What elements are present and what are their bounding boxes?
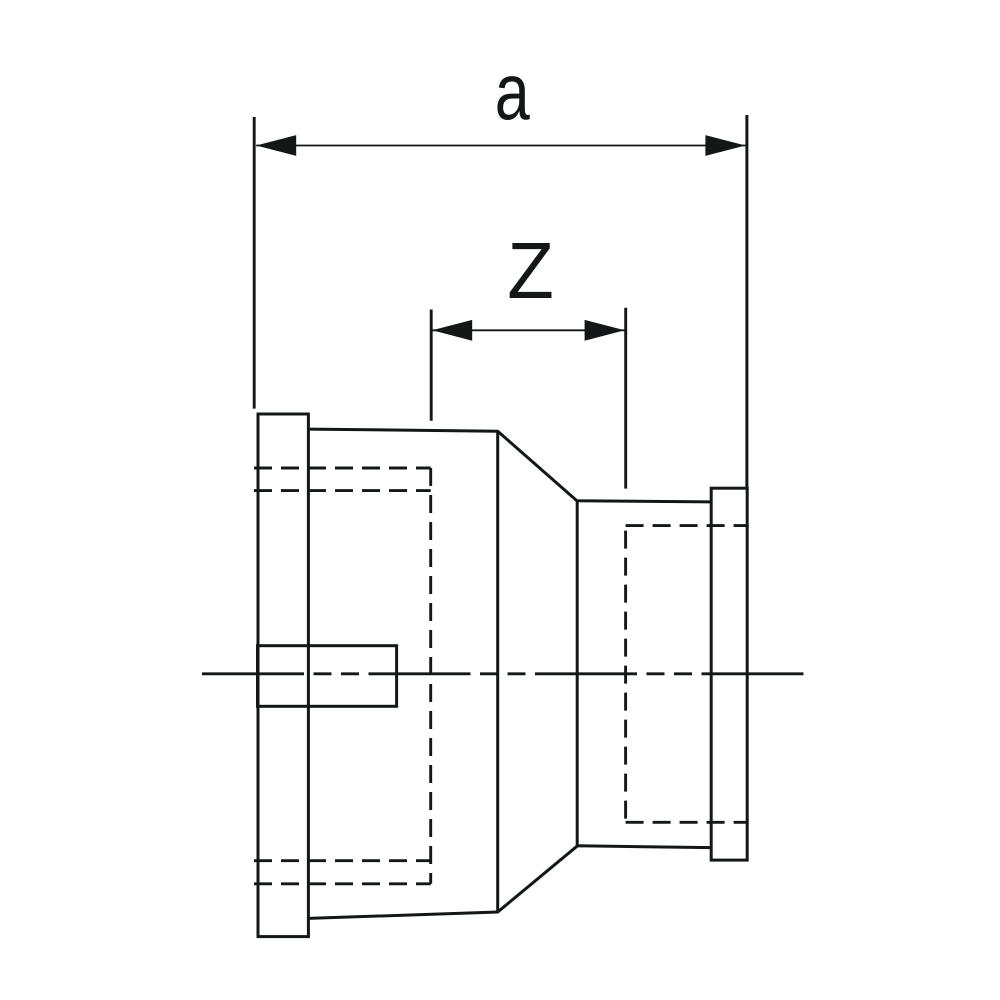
- svg-text:a: a: [495, 47, 530, 136]
- svg-text:Z: Z: [507, 226, 554, 315]
